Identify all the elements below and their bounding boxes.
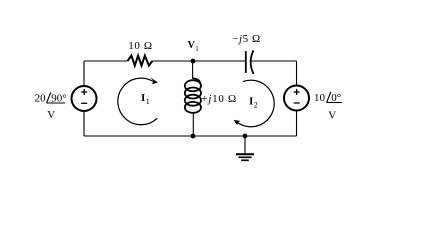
svg-text:+j10 Ω: +j10 Ω: [201, 93, 236, 105]
ground symbol: [244, 136, 246, 153]
inductor +j10Ω coil entry curve: [193, 78, 201, 84]
wire: inductor branch upper stub: [192, 61, 194, 79]
mesh current I1 arrow (clockwise arc): [118, 78, 157, 125]
svg-text:V: V: [328, 109, 336, 121]
svg-text:−j5 Ω: −j5 Ω: [232, 33, 260, 45]
wire: top rail right segment: [250, 60, 297, 62]
node: inductor bottom junction dot: [191, 134, 196, 139]
source V1 plus sign: [81, 91, 87, 93]
svg-text:1: 1: [195, 45, 199, 53]
svg-text:I: I: [141, 92, 145, 104]
svg-text:1: 1: [146, 97, 150, 106]
wire: inductor branch lower stub: [192, 112, 194, 136]
wire: top rail middle segment: [152, 60, 246, 62]
wire: right vertical lower: [296, 110, 298, 136]
mesh current I2 arrow (clockwise arc): [238, 80, 274, 127]
mesh current I2 arrowhead: [234, 120, 241, 125]
capacitor -j5Ω: straight plate: [245, 51, 247, 73]
wire: bottom rail: [84, 135, 297, 137]
node: ground junction dot: [243, 134, 248, 139]
svg-text:V: V: [47, 109, 55, 121]
wire: right vertical upper: [296, 61, 298, 86]
svg-text:10: 10: [314, 92, 326, 104]
svg-text:2: 2: [254, 100, 258, 109]
resistor 10Ω zigzag: [127, 56, 152, 66]
source V2 circle (10∠0° V): [284, 86, 309, 111]
svg-text:20: 20: [35, 92, 47, 104]
source V1 circle (20∠90° V): [72, 86, 97, 111]
wire: left vertical lower: [83, 111, 85, 137]
wire: left vertical upper: [83, 61, 85, 86]
svg-text:I: I: [249, 96, 253, 108]
svg-text:10 Ω: 10 Ω: [128, 40, 152, 52]
inductor +j10Ω coil loops: [185, 80, 201, 113]
mesh current I1 arrowhead: [150, 77, 158, 84]
node V1 junction dot: [191, 59, 196, 64]
source V1 minus sign: [81, 102, 87, 104]
source V2 plus sign: [294, 91, 300, 93]
capacitor -j5Ω: curved plate: [251, 50, 254, 74]
source V2 minus sign: [294, 102, 300, 104]
wire: top rail left segment: [84, 60, 127, 62]
